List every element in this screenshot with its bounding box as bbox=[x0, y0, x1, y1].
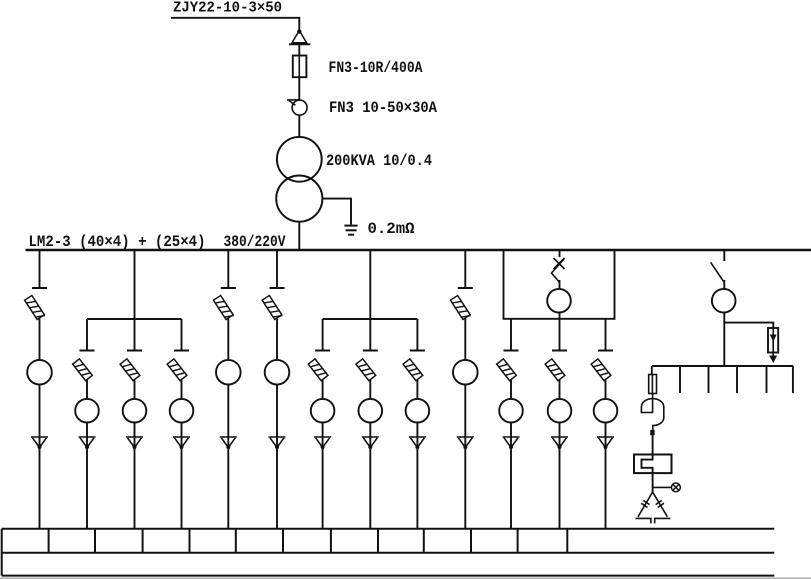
group G2 branch bar bbox=[323, 318, 418, 320]
comb stub 5 (end) bbox=[792, 366, 794, 393]
panel row 2 (lower band) bbox=[2, 575, 775, 577]
feeder F2.3 wire bbox=[181, 423, 183, 437]
feeder F7.3 drop wire bbox=[416, 319, 418, 350]
feeder F7.2 load arrow bbox=[362, 437, 379, 449]
comb stub 4 bbox=[766, 366, 768, 393]
feeder F7.2 contact tick bbox=[363, 350, 378, 352]
feeder F10 fuse switch bbox=[450, 296, 470, 321]
panel cell divider 11 bbox=[517, 529, 519, 553]
feeder F7.3 load arrow bbox=[409, 437, 426, 449]
panel cell divider 6 bbox=[282, 529, 284, 553]
feeder F10 wire to panel bbox=[464, 448, 466, 530]
wire bbox=[723, 280, 725, 289]
capacitor bank delta C bbox=[636, 492, 671, 523]
cable terminal head bbox=[289, 29, 311, 44]
panel cell divider 9 bbox=[423, 529, 425, 553]
wire contactor to thermal relay bbox=[652, 435, 654, 455]
feeder F7.1 meter bbox=[311, 399, 335, 423]
breaker QF wire stub bbox=[559, 251, 561, 257]
panel cell divider 8 bbox=[377, 529, 379, 553]
capacitor feeder meter bbox=[712, 289, 736, 313]
panel cell divider 12 bbox=[566, 529, 568, 553]
feeder F1 fuse switch bbox=[25, 296, 45, 321]
feeder F1 load arrow bbox=[31, 437, 48, 449]
feeder F2.1 wire to panel bbox=[86, 448, 88, 530]
feeder F2.1 meter bbox=[75, 399, 99, 423]
box wire bbox=[559, 313, 561, 319]
wire to discharge lamp bbox=[653, 486, 672, 488]
feeder F11.2 drop wire bbox=[559, 319, 561, 350]
feeder F2.2 wire bbox=[134, 380, 136, 399]
group G1 branch bar bbox=[87, 318, 182, 320]
feeder F11.3 wire bbox=[605, 423, 607, 437]
feeder F6 drop wire from bus bbox=[276, 251, 278, 287]
feeder F2.3 wire to panel bbox=[181, 448, 183, 530]
feeder F6 wire to panel bbox=[276, 448, 278, 530]
feeder F7.1 wire bbox=[322, 380, 324, 399]
transformer T1 200kVA bbox=[276, 137, 322, 222]
feeder F2.1 wire bbox=[86, 380, 88, 399]
wire transformer neutral to ground bbox=[322, 199, 351, 225]
wire bbox=[298, 115, 300, 137]
distribution bar (comb) bbox=[652, 365, 793, 367]
branch wire to surge arrester bbox=[724, 323, 773, 328]
feeder F7.3 wire bbox=[416, 423, 418, 437]
feeder F7.1 load arrow bbox=[314, 437, 331, 449]
feeder F7.2 wire bbox=[369, 423, 371, 437]
feeder F7.2 meter bbox=[359, 399, 383, 423]
wire bbox=[298, 77, 300, 99]
capacitor feeder drop wire from bus bbox=[723, 251, 725, 261]
feeder F2.1 contact tick bbox=[80, 350, 95, 352]
feeder F11.2 wire to panel bbox=[559, 448, 561, 530]
feeder F11.1 drop wire bbox=[510, 319, 512, 350]
feeder F2.2 wire to panel bbox=[134, 448, 136, 530]
panel cell divider 3 bbox=[142, 529, 144, 553]
feeder F5 fuse switch bbox=[213, 296, 233, 321]
feeder F11.1 meter bbox=[499, 399, 523, 423]
feeder F11.2 meter bbox=[548, 399, 572, 423]
feeder F10 contact tick bbox=[458, 287, 473, 289]
feeder F5 drop wire from bus bbox=[227, 251, 229, 287]
disconnect switch QS blade bbox=[711, 262, 724, 281]
feeder F5 meter bbox=[216, 360, 241, 385]
group riser G1 from bus bbox=[134, 251, 136, 319]
group riser G2 from bus bbox=[369, 251, 371, 319]
feeder F11.1 fuse switch bbox=[497, 359, 517, 381]
svg-text:ZJY22-10-3×50: ZJY22-10-3×50 bbox=[173, 0, 282, 17]
feeder F7.2 wire bbox=[369, 380, 371, 399]
capacitor branch wire bbox=[651, 366, 653, 374]
feeder F11.1 load arrow bbox=[503, 437, 520, 449]
box meter bbox=[547, 289, 571, 313]
contactor junction dot bbox=[650, 430, 654, 435]
feeder F7.3 wire to panel bbox=[416, 448, 418, 530]
feeder F6 meter bbox=[265, 360, 290, 385]
feeder F1 contact tick bbox=[32, 287, 47, 289]
cabinet box outline bbox=[504, 250, 615, 319]
svg-text:200KVA 10/0.4: 200KVA 10/0.4 bbox=[326, 153, 432, 170]
feeder F11.3 contact tick bbox=[598, 350, 613, 352]
feeder F6 fuse switch bbox=[262, 296, 282, 321]
feeder F11.3 fuse switch bbox=[591, 359, 611, 381]
feeder F7.2 wire to panel bbox=[369, 448, 371, 530]
panel row 1 (cells) bbox=[2, 529, 775, 576]
feeder F11.3 drop wire bbox=[605, 319, 607, 350]
feeder F11.3 wire to panel bbox=[605, 448, 607, 530]
discharge lamp HL bbox=[672, 483, 681, 492]
wire bbox=[298, 43, 300, 56]
panel cell divider 1 bbox=[48, 529, 50, 553]
thermal relay conductor detour bbox=[642, 455, 653, 474]
feeder F10 wire bbox=[464, 385, 466, 437]
feeder F6 wire bbox=[276, 385, 278, 437]
comb stub 3 bbox=[736, 366, 738, 393]
feeder F2.1 wire bbox=[86, 423, 88, 437]
feeder F11.3 meter bbox=[594, 399, 618, 423]
thermal relay KH box bbox=[634, 455, 672, 474]
contactor KM bbox=[641, 394, 663, 430]
feeder F7.3 fuse switch bbox=[403, 359, 423, 381]
breaker QF contact X bbox=[554, 258, 565, 269]
feeder F7.1 drop wire bbox=[322, 319, 324, 350]
feeder F7.1 wire bbox=[322, 423, 324, 437]
feeder F11.1 wire bbox=[510, 380, 512, 399]
feeder F1 wire bbox=[39, 385, 41, 437]
feeder F7.3 meter bbox=[406, 399, 430, 423]
feeder F7.3 contact tick bbox=[410, 350, 425, 352]
feeder F5 wire bbox=[227, 385, 229, 437]
feeder F6 load arrow bbox=[269, 437, 286, 449]
breaker QF blade bbox=[552, 259, 565, 282]
bus LM2-3 380/220V bbox=[26, 249, 811, 252]
wire thermal relay to capacitor bank bbox=[652, 473, 654, 492]
feeder F1 wire to panel bbox=[39, 448, 41, 530]
feeder F2.3 wire bbox=[181, 380, 183, 399]
surge arrester FV bbox=[768, 328, 778, 363]
feeder F5 wire bbox=[227, 319, 229, 361]
feeder F2.3 meter bbox=[170, 399, 194, 423]
feeder F2.1 load arrow bbox=[79, 437, 96, 449]
feeder F7.3 wire bbox=[416, 380, 418, 399]
feeder F2.1 fuse switch bbox=[73, 359, 93, 381]
panel cell divider 4 bbox=[189, 529, 191, 553]
feeder F11.1 wire bbox=[510, 423, 512, 437]
load break switch FN3 bbox=[287, 99, 307, 115]
feeder F10 drop wire from bus bbox=[464, 251, 466, 287]
panel cell divider 7 bbox=[330, 529, 332, 553]
feeder F7.2 drop wire bbox=[369, 319, 371, 350]
feeder F2.1 drop wire bbox=[86, 319, 88, 350]
svg-text:0.2mΩ: 0.2mΩ bbox=[368, 221, 415, 239]
feeder F2.2 meter bbox=[123, 399, 147, 423]
feeder F11.3 wire bbox=[605, 380, 607, 399]
feeder F11.2 wire bbox=[559, 423, 561, 437]
feeder F2.2 fuse switch bbox=[120, 359, 140, 381]
feeder F7.2 fuse switch bbox=[356, 359, 376, 381]
feeder F5 load arrow bbox=[220, 437, 237, 449]
ground bbox=[344, 226, 357, 235]
feeder F11.2 load arrow bbox=[551, 437, 568, 449]
feeder F2.3 contact tick bbox=[174, 350, 189, 352]
feeder F11.1 contact tick bbox=[504, 350, 519, 352]
feeder F7.1 wire to panel bbox=[322, 448, 324, 530]
feeder F2.3 fuse switch bbox=[167, 359, 187, 381]
comb stub 1 bbox=[679, 366, 681, 393]
breaker wire bbox=[559, 280, 561, 289]
feeder F1 meter bbox=[27, 360, 52, 385]
svg-text:FN3-10R/400A: FN3-10R/400A bbox=[329, 60, 423, 77]
panel cell divider 5 bbox=[235, 529, 237, 553]
feeder F6 contact tick bbox=[270, 287, 285, 289]
wire incoming overhead line bbox=[171, 18, 299, 30]
panel cell divider 10 bbox=[470, 529, 472, 553]
feeder F11.1 wire to panel bbox=[510, 448, 512, 530]
feeder F11.2 contact tick bbox=[552, 350, 567, 352]
feeder F7.1 fuse switch bbox=[308, 359, 328, 381]
feeder F10 load arrow bbox=[457, 437, 474, 449]
feeder F2.2 wire bbox=[134, 423, 136, 437]
svg-text:FN3 10-50×30A: FN3 10-50×30A bbox=[329, 100, 437, 117]
feeder F2.3 load arrow bbox=[173, 437, 190, 449]
comb stub 2 bbox=[708, 366, 710, 393]
feeder F1 wire bbox=[39, 319, 41, 361]
feeder F11.3 load arrow bbox=[597, 437, 614, 449]
feeder F10 wire bbox=[464, 319, 466, 361]
capacitor branch fuse FU2 bbox=[649, 374, 657, 395]
wire transformer secondary to bus bbox=[298, 222, 300, 250]
feeder F11.2 fuse switch bbox=[545, 359, 565, 381]
scan edge artifact bottom bbox=[0, 577, 811, 579]
feeder F5 contact tick bbox=[221, 287, 236, 289]
wire meter to distribution bar bbox=[723, 313, 725, 367]
panel cell divider 2 bbox=[94, 529, 96, 553]
feeder F5 wire to panel bbox=[227, 448, 229, 530]
fuse FU 400A bbox=[293, 56, 307, 78]
feeder F2.2 drop wire bbox=[134, 319, 136, 350]
feeder F2.3 drop wire bbox=[181, 319, 183, 350]
feeder F11.2 wire bbox=[559, 380, 561, 399]
feeder F6 wire bbox=[276, 319, 278, 361]
feeder F2.2 contact tick bbox=[127, 350, 142, 352]
feeder F1 drop wire from bus bbox=[39, 251, 41, 287]
feeder F2.2 load arrow bbox=[126, 437, 143, 449]
feeder F10 meter bbox=[453, 360, 478, 385]
feeder F7.1 contact tick bbox=[315, 350, 330, 352]
